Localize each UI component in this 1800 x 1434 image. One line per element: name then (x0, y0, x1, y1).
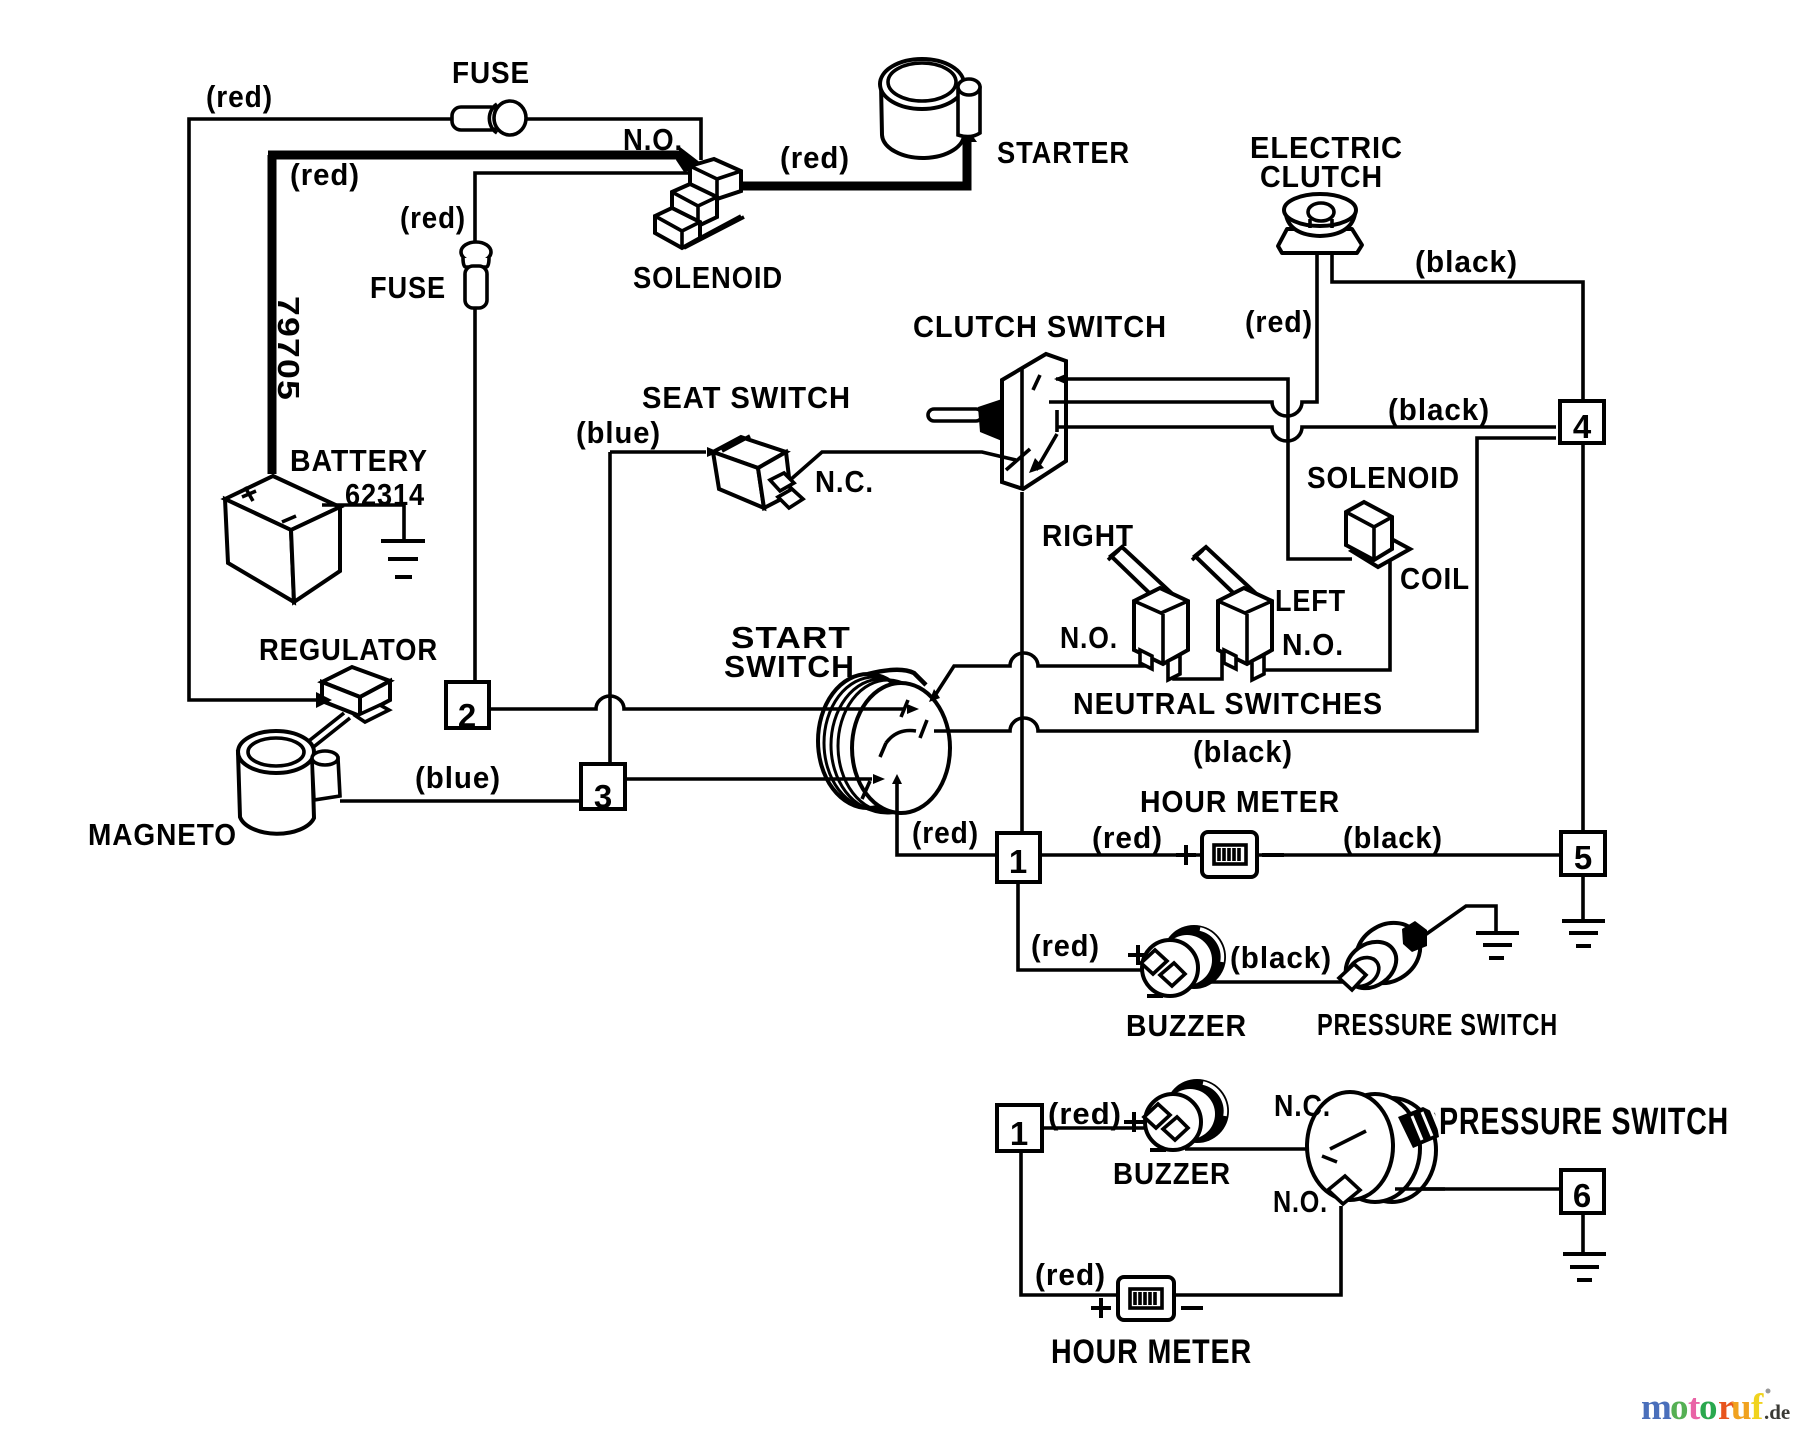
fuse F2 (vertical) (461, 242, 491, 308)
wire: start switch bottom to box 1 (897, 784, 997, 855)
svg-text:N.O.: N.O. (1282, 627, 1344, 662)
svg-text:(red): (red) (1245, 304, 1313, 339)
label minus buzzer2 (1150, 1148, 1166, 1152)
wire: seat switch blue vertical to box 3 (608, 452, 612, 764)
seat switch (713, 436, 803, 508)
svg-text:79705: 79705 (271, 296, 306, 401)
ground (box 6) (1563, 1254, 1606, 1280)
svg-text:(red): (red) (206, 79, 273, 114)
wire: arrow tip into start switch (907, 704, 919, 714)
svg-text:SWITCH: SWITCH (724, 649, 855, 684)
starter motor (880, 59, 980, 158)
battery (225, 476, 340, 602)
svg-text:N.C.: N.C. (815, 464, 874, 499)
solenoid coil (1346, 502, 1410, 567)
wire: pressure switch 1 to ground (1425, 906, 1496, 935)
wire: box 4 down to box 5 (1581, 443, 1585, 832)
svg-text:5: 5 (1574, 839, 1592, 876)
svg-text:N.O.: N.O. (623, 122, 683, 157)
svg-text:BATTERY: BATTERY (290, 443, 428, 478)
svg-text:o: o (1670, 1387, 1689, 1428)
wire: solenoid left terminal to fuse 2 and box 2 (475, 173, 690, 682)
svg-text:N.C.: N.C. (1274, 1088, 1331, 1123)
svg-text:(black): (black) (1343, 820, 1443, 855)
svg-text:FUSE: FUSE (370, 270, 446, 305)
svg-text:3: 3 (594, 778, 612, 815)
wire: clutch switch bottom vertical to box 1 (1020, 492, 1024, 833)
svg-text:f: f (1751, 1387, 1764, 1428)
node 4 (1560, 401, 1604, 445)
label minus buzzer1 (1147, 994, 1163, 998)
svg-text:(blue): (blue) (415, 760, 501, 795)
label + buzzer2 (1124, 1112, 1144, 1132)
svg-text:62314: 62314 (345, 477, 425, 512)
node 1 (997, 833, 1040, 882)
wire: clutch switch wire3 hop to box 4 (1058, 427, 1556, 441)
ground (box 5) (1562, 921, 1605, 946)
start switch (818, 670, 950, 813)
wire: start switch diagonal to neutral bus (934, 653, 1146, 697)
wire: fuse 1 to solenoid top corner (527, 119, 701, 160)
wire: bus from box 2 to start switch with hop over blue vertical (489, 696, 905, 709)
svg-text:HOUR METER: HOUR METER (1140, 784, 1340, 819)
motoruf.de logo (1641, 1387, 1790, 1428)
svg-text:.de: .de (1764, 1400, 1790, 1424)
buzzer 1 (1141, 925, 1226, 996)
svg-text:REGULATOR: REGULATOR (259, 632, 438, 667)
wire: magneto to box 3 (340, 799, 581, 803)
wire: clutch switch wire1 to coil via corner (1056, 379, 1352, 559)
svg-text:BUZZER: BUZZER (1126, 1008, 1247, 1043)
svg-text:CLUTCH: CLUTCH (1260, 159, 1383, 194)
svg-text:PRESSURE SWITCH: PRESSURE SWITCH (1439, 1101, 1729, 1143)
wire: arrowhead up into starter (958, 128, 977, 142)
svg-text:6: 6 (1573, 1177, 1591, 1214)
svg-text:1: 1 (1009, 843, 1027, 880)
svg-text:N.O.: N.O. (1060, 620, 1118, 655)
node 6 (1561, 1170, 1604, 1214)
ground (pressure switch 1) (1476, 933, 1519, 958)
clutch switch toggle lever (928, 399, 1002, 441)
wire: buzzer 1 minus to pressure switch 1 (1180, 980, 1345, 984)
wire: arrow into start switch lower (873, 774, 885, 784)
wire: pressure switch 2 to box 6 (1395, 1187, 1561, 1191)
svg-text:LEFT: LEFT (1275, 583, 1346, 618)
svg-text:SEAT SWITCH: SEAT SWITCH (642, 380, 851, 415)
clutch switch (1002, 354, 1066, 489)
node 3 (581, 764, 625, 815)
regulator (305, 667, 390, 749)
label + buzzer1 (1128, 945, 1148, 965)
svg-text:(blue): (blue) (576, 415, 661, 450)
wire: bus from start switch to box 4 riser (934, 438, 1556, 731)
electric clutch (1278, 194, 1362, 253)
svg-text:MAGNETO: MAGNETO (88, 817, 237, 852)
wire: clutch switch wire2 hop to clutch red drop (1049, 253, 1317, 416)
pressure switch 1 (1337, 911, 1432, 998)
svg-text:(red): (red) (1031, 928, 1100, 963)
svg-text:(black): (black) (1415, 244, 1518, 279)
svg-text:CLUTCH SWITCH: CLUTCH SWITCH (913, 309, 1167, 344)
svg-text:2: 2 (458, 697, 476, 734)
svg-text:RIGHT: RIGHT (1042, 518, 1134, 553)
svg-text:SOLENOID: SOLENOID (633, 260, 783, 295)
svg-text:u: u (1731, 1387, 1752, 1428)
fuse F1 (top) (452, 101, 526, 135)
svg-text:(red): (red) (400, 200, 466, 235)
svg-text:(red): (red) (1035, 1257, 1106, 1292)
neutral switch RIGHT (1108, 547, 1188, 680)
magneto (238, 731, 340, 834)
svg-text:4: 4 (1573, 408, 1592, 445)
svg-text:STARTER: STARTER (997, 135, 1130, 170)
buzzer 2 (1144, 1079, 1229, 1150)
wire: box 6 to ground (1581, 1213, 1585, 1254)
wire: box 1b to buzzer 2 (1042, 1126, 1152, 1130)
svg-text:o: o (1699, 1387, 1718, 1428)
svg-text:(red): (red) (290, 157, 360, 192)
svg-text:HOUR METER: HOUR METER (1051, 1333, 1252, 1371)
wire: hour meter line box1 to box5 (1040, 853, 1561, 857)
ground (battery) (322, 505, 425, 577)
wire: buzzer 2 to pressure switch 2 N.C. (1185, 1147, 1330, 1151)
svg-text:1: 1 (1010, 1115, 1028, 1152)
node 2 (446, 682, 489, 734)
svg-text:(red): (red) (912, 815, 979, 850)
wire: box 1 down to buzzer 1 (1018, 882, 1150, 970)
svg-text:m: m (1641, 1387, 1672, 1428)
svg-text:(red): (red) (780, 140, 850, 175)
svg-text:N.O.: N.O. (1273, 1184, 1328, 1219)
svg-text:NEUTRAL SWITCHES: NEUTRAL SWITCHES (1073, 686, 1383, 721)
wire: left neutral switch right leg to coil (1258, 560, 1390, 670)
svg-text:(black): (black) (1193, 734, 1293, 769)
hour meter 1 (1176, 832, 1284, 877)
node 5 (1561, 832, 1605, 876)
svg-text:(red): (red) (1092, 820, 1163, 855)
wire: left red loop from fuse down to regulator (189, 119, 452, 700)
svg-text:FUSE: FUSE (452, 55, 530, 90)
svg-text:SOLENOID: SOLENOID (1307, 460, 1460, 495)
hour meter 2 (1091, 1277, 1203, 1320)
wire: seat switch N.C. to clutch switch (789, 452, 1016, 481)
svg-text:COIL: COIL (1400, 561, 1470, 596)
svg-text:PRESSURE SWITCH: PRESSURE SWITCH (1317, 1007, 1558, 1042)
wire: box 5 to ground (1581, 875, 1585, 921)
wire: box 3 to start switch blue (625, 777, 872, 781)
wire: right neutral switch left leg (1144, 648, 1148, 666)
svg-text:(black): (black) (1388, 392, 1490, 427)
wire: thick battery cable 79705 up and across (268, 155, 684, 474)
wire: arrowhead into solenoid N.O. (676, 147, 706, 172)
neutral switch LEFT (1192, 547, 1272, 680)
solenoid (starter solenoid bracket) (655, 159, 744, 248)
node 1b (997, 1105, 1042, 1152)
wire: arrow into seat switch (707, 447, 719, 457)
svg-text:(black): (black) (1230, 940, 1332, 975)
wire: seat switch horizontal blue (610, 450, 706, 454)
svg-text:(red): (red) (1048, 1096, 1122, 1131)
svg-text:BUZZER: BUZZER (1113, 1156, 1231, 1191)
wire: thick solenoid to starter (722, 142, 967, 186)
wire: electric clutch black to box 4 (1332, 253, 1583, 401)
pressure switch 2 (1307, 1092, 1445, 1204)
wire: box1b-hourmeter2-N.O. loop (1021, 1151, 1341, 1295)
wire: neutral switches U link (1174, 650, 1222, 679)
